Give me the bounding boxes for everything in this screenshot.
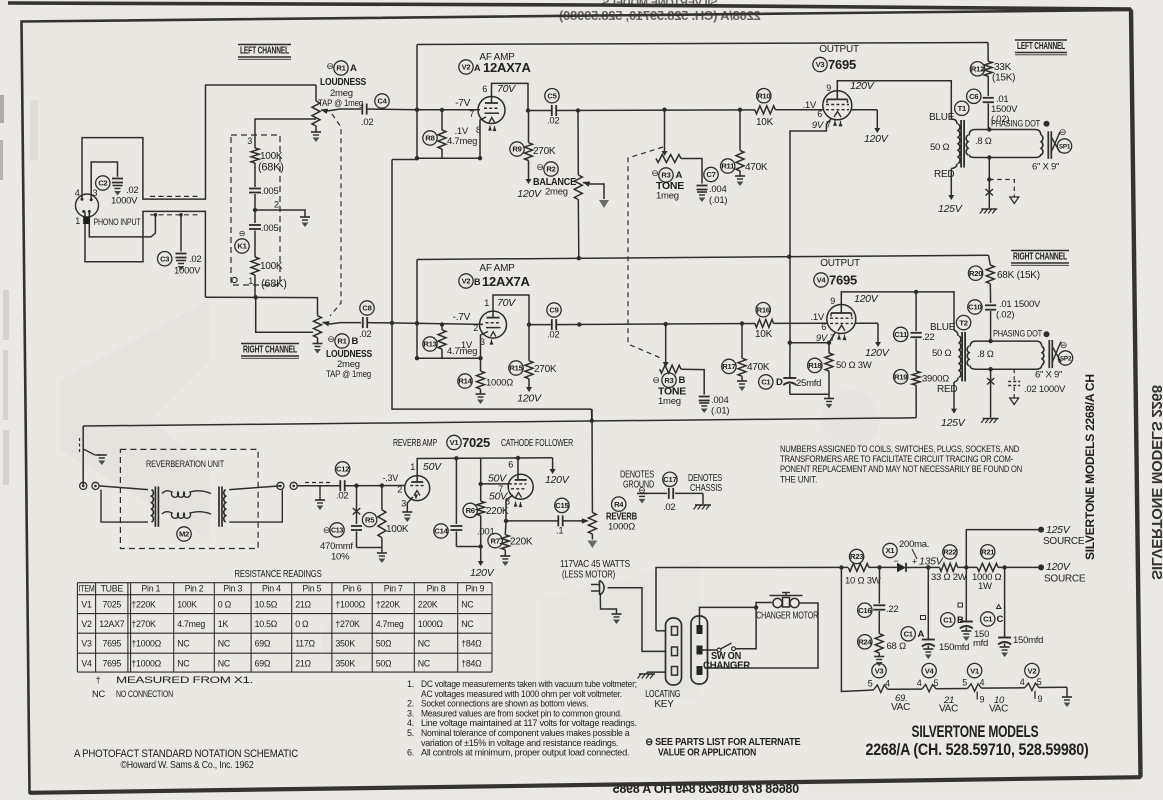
svg-text:R15: R15: [509, 364, 523, 373]
svg-text:5: 5: [868, 679, 873, 689]
wire V3 pin1 to 120V: [852, 109, 878, 111]
svg-text:117VAC 45 WATTS: 117VAC 45 WATTS: [560, 559, 630, 570]
svg-text:(.02): (.02): [996, 310, 1014, 321]
svg-text:Pin 2: Pin 2: [185, 584, 204, 594]
triode V1B: [508, 474, 533, 499]
svg-text:R16: R16: [757, 305, 770, 314]
svg-text:3: 3: [93, 188, 98, 198]
svg-text:R14: R14: [458, 377, 472, 386]
resistor R6 220K: [480, 484, 482, 501]
svg-text:125V: 125V: [1046, 524, 1071, 536]
wire V4 cathode bus: [790, 333, 835, 343]
svg-text:C9: C9: [549, 306, 558, 315]
svg-text:B: B: [352, 336, 359, 347]
wire 125V SOURCE: [964, 565, 968, 569]
svg-text:10K: 10K: [755, 329, 773, 340]
svg-text:7025: 7025: [103, 600, 122, 610]
svg-text:CHANGER: CHANGER: [703, 661, 751, 672]
svg-text:MEASURED FROM X1.: MEASURED FROM X1.: [116, 675, 253, 685]
svg-text:117Ω: 117Ω: [295, 639, 315, 649]
svg-text:120V: 120V: [470, 567, 495, 579]
wire cathode bus y158: [417, 157, 480, 159]
svg-text:VAC: VAC: [939, 704, 958, 715]
svg-text:.02: .02: [547, 116, 559, 127]
resistor R24 68ohm: [875, 634, 883, 653]
svg-text:4: 4: [75, 188, 80, 198]
changer motor symbol: [773, 598, 782, 607]
svg-text:C2: C2: [98, 179, 107, 188]
svg-text:270K: 270K: [534, 364, 557, 375]
filament string end ground: [1066, 687, 1068, 697]
svg-text:0 Ω: 0 Ω: [295, 619, 309, 629]
resistor R22 33ohm 2W: [926, 565, 930, 569]
svg-text:R1: R1: [337, 337, 347, 346]
svg-text:220K: 220K: [510, 537, 533, 548]
wire C4 to V2A grid: [367, 108, 417, 111]
svg-text:VAC: VAC: [989, 704, 1008, 715]
svg-text:4: 4: [885, 678, 890, 688]
resistor R5 100K: [381, 486, 383, 510]
svg-text:150mfd: 150mfd: [1013, 635, 1043, 646]
svg-text:PHASING DOT: PHASING DOT: [991, 119, 1040, 130]
svg-text:Pin 8: Pin 8: [427, 584, 446, 594]
resistor R23 10ohm 3W: [848, 563, 869, 571]
svg-text:69Ω: 69Ω: [255, 639, 271, 649]
svg-text:3900Ω: 3900Ω: [922, 374, 949, 385]
svg-text:C4: C4: [377, 97, 387, 106]
wire 120V arrow V1B plate supply: [552, 458, 554, 470]
svg-text:V1: V1: [450, 438, 460, 447]
capacitor C4: [361, 104, 363, 115]
svg-text:OUTPUT: OUTPUT: [819, 44, 859, 55]
svg-text:R11: R11: [721, 162, 735, 171]
svg-text:R24: R24: [858, 638, 872, 647]
ghost blobs inside frame: [60, 300, 880, 700]
svg-text:120V: 120V: [545, 474, 570, 486]
resistor R13 4.7meg: [441, 325, 443, 330]
svg-text:10 Ω 3W: 10 Ω 3W: [845, 576, 881, 587]
svg-text:1.: 1.: [407, 679, 414, 689]
svg-text:1: 1: [75, 216, 80, 226]
svg-text:⊖: ⊖: [326, 61, 333, 71]
wire V1A plate top: [417, 458, 552, 482]
svg-text:K1: K1: [237, 242, 247, 251]
svg-text:⊖: ⊖: [239, 229, 245, 238]
svg-text:.8 Ω: .8 Ω: [975, 136, 992, 147]
phono input jack M1: [76, 194, 99, 217]
wire V4 pin1 to 120V: [856, 322, 878, 324]
svg-text:variation of ±15% in voltage a: variation of ±15% in voltage and resista…: [421, 738, 618, 748]
wire V1B plate to top rail: [517, 458, 519, 480]
svg-text:SOURCE: SOURCE: [1044, 574, 1086, 585]
svg-text:NC: NC: [218, 658, 231, 668]
svg-text:NC: NC: [177, 639, 190, 649]
svg-text:NC: NC: [418, 639, 431, 649]
svg-text:⊖: ⊖: [652, 375, 659, 385]
svg-text:M2: M2: [179, 530, 189, 539]
svg-text:470K: 470K: [747, 362, 770, 373]
shield dashes upper run: [150, 195, 199, 197]
svg-text:50V: 50V: [423, 461, 442, 473]
capacitor C1B 150mfd: [965, 567, 967, 621]
svg-text:R17: R17: [722, 362, 735, 371]
svg-text:.02: .02: [336, 491, 348, 502]
resistor 100K lower (K1 box): [251, 257, 259, 275]
svg-text:1K: 1K: [218, 619, 229, 629]
rectifier X1: [869, 566, 897, 568]
node V2A plate: [526, 108, 530, 112]
svg-text:A: A: [350, 63, 357, 74]
svg-text:33K: 33K: [994, 62, 1012, 73]
svg-text:TRANSFORMERS ARE TO FACILITATE: TRANSFORMERS ARE TO FACILITATE CIRCUIT T…: [780, 454, 1013, 464]
svg-text:V1: V1: [81, 600, 92, 610]
wire C15 to R4 wiper: [563, 520, 584, 522]
svg-text:C8: C8: [362, 304, 371, 313]
svg-text:21Ω: 21Ω: [295, 600, 311, 610]
svg-text:RESISTANCE READINGS: RESISTANCE READINGS: [235, 569, 323, 580]
resistor R9 270K: [528, 111, 530, 143]
svg-text:350K: 350K: [335, 639, 355, 649]
pentode V3: [823, 91, 852, 120]
svg-text:9: 9: [980, 695, 985, 705]
capacitor C1A 150mfd: [927, 567, 929, 639]
svg-text:C14: C14: [434, 527, 448, 536]
wire shield input left with ground: [82, 426, 84, 486]
svg-text:125V: 125V: [938, 203, 963, 215]
svg-text:VALUE OR APPLICATION: VALUE OR APPLICATION: [658, 748, 756, 759]
reverb input jacks: [80, 482, 87, 489]
capacitor .004 lower tone: [681, 369, 704, 394]
wire V1A cathode ground: [407, 497, 413, 512]
svg-text:5: 5: [1037, 677, 1042, 687]
svg-text:R10: R10: [757, 91, 770, 100]
transformer T1: [958, 124, 960, 164]
svg-text:R18: R18: [808, 361, 821, 370]
svg-text:4.7meg: 4.7meg: [447, 346, 477, 357]
changer connector: [691, 616, 708, 684]
wire V4 plate to T2: [841, 292, 954, 331]
speaker SP2: [1042, 347, 1044, 366]
dashed box K1 network: [231, 135, 280, 285]
svg-text:OUTPUT: OUTPUT: [820, 258, 860, 269]
svg-text:C1: C1: [943, 616, 953, 625]
label RIGHT CHANNEL (right): [1011, 251, 1069, 266]
svg-text:TAP @ 1meg: TAP @ 1meg: [326, 369, 371, 380]
svg-text:5: 5: [934, 678, 939, 688]
svg-text:R21: R21: [981, 548, 995, 557]
wire horizontal y159 to x392: [392, 159, 417, 161]
svg-text:4: 4: [1020, 677, 1025, 687]
svg-text:50 Ω: 50 Ω: [930, 142, 949, 153]
svg-text:B: B: [474, 277, 481, 287]
svg-text:4.: 4.: [407, 718, 414, 728]
capacitor C12: [339, 480, 341, 491]
svg-text:(68K): (68K): [258, 162, 284, 174]
svg-text:120V: 120V: [517, 393, 542, 405]
svg-text:A PHOTOFACT STANDARD NOTATION: A PHOTOFACT STANDARD NOTATION SCHEMATIC: [74, 748, 298, 760]
svg-text:⊖: ⊖: [536, 162, 543, 172]
svg-text:.1V: .1V: [802, 100, 816, 111]
svg-text:120V: 120V: [850, 80, 875, 92]
wire V3 cathode feedback: [790, 119, 831, 256]
wire plug to key slot 2: [608, 588, 667, 652]
svg-text:3.: 3.: [407, 708, 414, 718]
wire motor right to changer slot3: [705, 603, 819, 668]
wire K1 chain to R1B tap: [254, 295, 258, 299]
svg-text:REVERB AMP: REVERB AMP: [393, 438, 437, 449]
svg-text:SILVERTONE MODELS 2268/A CH: SILVERTONE MODELS 2268/A CH: [1083, 374, 1097, 560]
svg-text:R3: R3: [661, 171, 670, 180]
dashed phantom ground SP1: [989, 180, 1014, 198]
svg-text:Pin 1: Pin 1: [141, 584, 160, 594]
svg-text:R12: R12: [971, 65, 984, 74]
page top edge line: [8, 3, 1131, 9]
svg-text:Pin 6: Pin 6: [343, 584, 362, 594]
svg-text:6: 6: [821, 322, 826, 332]
filament string tube circles: [872, 663, 886, 677]
svg-text:.8 Ω: .8 Ω: [977, 349, 994, 360]
svg-text:7695: 7695: [103, 639, 122, 649]
svg-text:AC voltages measured with 1000: AC voltages measured with 1000 ohm per v…: [421, 689, 622, 699]
svg-text:†220K: †220K: [131, 600, 156, 610]
shield dashes lower run: [150, 214, 199, 216]
svg-text:Nominal tolerance of component: Nominal tolerance of component values ma…: [421, 728, 630, 738]
reverb springs: [162, 491, 211, 498]
wire V2A plate loop: [492, 83, 529, 110]
wire V3 plate to T1: [837, 81, 951, 119]
svg-text:125V: 125V: [941, 417, 966, 429]
svg-text:.1: .1: [556, 526, 563, 537]
svg-text:5: 5: [962, 678, 967, 688]
control R3A TONE: [664, 110, 666, 140]
svg-text:R20: R20: [969, 269, 982, 278]
svg-text:RED: RED: [934, 169, 954, 180]
svg-text:V3: V3: [875, 666, 884, 675]
capacitor C15 .1: [506, 520, 558, 522]
svg-text:Pin 9: Pin 9: [465, 584, 484, 594]
svg-text:.005: .005: [261, 186, 279, 197]
svg-text:6" X 9": 6" X 9": [1035, 370, 1062, 381]
svg-text:50 Ω 3W: 50 Ω 3W: [836, 360, 872, 371]
svg-text:AF AMP: AF AMP: [479, 263, 515, 274]
svg-text:7025: 7025: [462, 435, 490, 450]
capacitor C14 .001: [455, 458, 457, 524]
svg-text:V4: V4: [817, 276, 827, 285]
svg-text:ITEM: ITEM: [79, 584, 95, 594]
svg-text:.02 1000V: .02 1000V: [1024, 384, 1066, 395]
svg-text:B: B: [679, 375, 686, 386]
svg-text:V2: V2: [81, 619, 92, 629]
ghost bleed-through text top: [559, 0, 761, 23]
pentode V4: [827, 305, 856, 334]
svg-text:†270K: †270K: [131, 619, 156, 629]
svg-text:68 Ω: 68 Ω: [887, 641, 906, 652]
wire T1 loop to ground: [988, 158, 990, 209]
svg-text:9: 9: [1038, 694, 1043, 704]
shield ground tap: [319, 486, 321, 500]
svg-text:SILVERTONE MODELS 2268: SILVERTONE MODELS 2268: [1148, 385, 1163, 580]
svg-text:CHANGER MOTOR: CHANGER MOTOR: [756, 611, 818, 622]
capacitor C10: [985, 304, 996, 306]
dashed gang line R1A-R1B: [330, 114, 341, 316]
svg-text:69Ω: 69Ω: [255, 658, 271, 668]
svg-text:SP1: SP1: [1059, 143, 1071, 150]
svg-text:V3: V3: [816, 60, 825, 69]
svg-text:50Ω: 50Ω: [376, 658, 392, 668]
triode V2B: [480, 311, 507, 338]
svg-text:NC: NC: [461, 619, 474, 629]
svg-text:(15K): (15K): [992, 73, 1015, 84]
svg-text:470K: 470K: [745, 162, 768, 173]
svg-text:C1: C1: [983, 615, 993, 624]
svg-text:12AX7A: 12AX7A: [483, 60, 531, 75]
tube designator V4 7695: [814, 273, 828, 287]
svg-text:R9: R9: [512, 145, 521, 154]
svg-text:1000V: 1000V: [174, 266, 201, 277]
svg-text:R5: R5: [365, 515, 375, 524]
dashed box REVERBERATION UNIT: [120, 449, 258, 548]
control R2 BALANCE: [576, 108, 580, 112]
svg-text:2: 2: [274, 200, 279, 210]
reverb transducer left M2: [152, 490, 154, 522]
svg-text:†1000Ω: †1000Ω: [131, 658, 161, 668]
svg-text:2.: 2.: [407, 699, 414, 709]
control R1A LOUDNESS: [315, 85, 317, 101]
capacitor C5: [528, 110, 552, 112]
node K1 pin 2 with ground: [253, 208, 257, 212]
wire plug prong to ground: [600, 595, 616, 614]
wire reverb feed step: [591, 409, 593, 421]
svg-text:120V: 120V: [854, 293, 879, 305]
svg-text:C3: C3: [160, 254, 169, 263]
svg-text:C1: C1: [761, 378, 771, 387]
resistor R11 470K: [738, 108, 742, 112]
svg-text:(LESS MOTOR): (LESS MOTOR): [562, 570, 615, 581]
svg-text:3: 3: [401, 499, 406, 509]
svg-text:REVERBERATION UNIT: REVERBERATION UNIT: [146, 459, 224, 470]
wire B+ top rail left channel: [417, 43, 988, 45]
wire pin1 to lower run: [85, 211, 205, 297]
svg-text:6: 6: [482, 84, 487, 94]
svg-text:.01 1500V: .01 1500V: [999, 299, 1041, 310]
K1 box terminal circle: [232, 277, 237, 282]
svg-text:.22: .22: [922, 332, 934, 343]
svg-text:NC: NC: [92, 689, 105, 699]
svg-text:2meg: 2meg: [545, 187, 568, 198]
resistor R10 10K: [755, 106, 776, 114]
wires reverb unit connections: [99, 486, 148, 490]
svg-text:R1: R1: [336, 64, 346, 73]
svg-text:KEY: KEY: [654, 699, 674, 710]
svg-text:R6: R6: [466, 506, 475, 515]
svg-text:7695: 7695: [829, 273, 857, 288]
svg-text:10%: 10%: [331, 552, 350, 563]
svg-text:2268/A (CH. 528.59710, 528.599: 2268/A (CH. 528.59710, 528.59980): [866, 741, 1089, 759]
svg-text:1000V: 1000V: [111, 196, 138, 207]
svg-text:VAC: VAC: [891, 702, 910, 713]
svg-text:RIGHT CHANNEL: RIGHT CHANNEL: [243, 344, 298, 356]
svg-text:†270K: †270K: [335, 619, 360, 629]
speaker SP1: [1041, 135, 1043, 155]
svg-text:4.7meg: 4.7meg: [447, 136, 477, 147]
svg-text:10.5Ω: 10.5Ω: [255, 600, 278, 610]
control R4 REVERB 1000: [591, 409, 593, 512]
resistor R14 1000: [480, 358, 482, 371]
transformer T2: [959, 336, 961, 377]
svg-text:R3: R3: [664, 376, 673, 385]
resistor R15 270K: [527, 322, 531, 326]
wire filament AC line: [841, 568, 869, 692]
control R3B TONE: [665, 324, 667, 354]
capacitor C8: [362, 317, 364, 328]
svg-text:-.3V: -.3V: [382, 473, 398, 483]
capacitor .005 upper: [249, 188, 261, 190]
resistor R16 10K: [755, 319, 774, 327]
svg-text:50 Ω: 50 Ω: [932, 348, 951, 359]
label RIGHT CHANNEL (mid left): [241, 344, 299, 359]
svg-text:.02: .02: [189, 254, 201, 265]
svg-text:R19: R19: [894, 372, 907, 381]
capacitor C11 .22: [915, 292, 917, 331]
wire reverb output to C12: [297, 485, 340, 487]
wire vertical x417 upper: [416, 45, 418, 160]
svg-text:.02: .02: [547, 330, 559, 341]
svg-text:R2: R2: [546, 165, 555, 174]
svg-text:12AX7: 12AX7: [99, 619, 125, 629]
svg-text:−: −: [894, 556, 899, 566]
svg-text:A: A: [474, 63, 481, 73]
resistor R21 1000ohm 1W: [977, 563, 998, 571]
svg-text:mfd: mfd: [973, 638, 988, 649]
svg-text:0 Ω: 0 Ω: [218, 600, 232, 610]
node tone branch upper: [662, 108, 666, 112]
svg-text:.005: .005: [261, 223, 279, 234]
svg-text:100K: 100K: [177, 600, 197, 610]
svg-text:B: B: [957, 615, 964, 626]
svg-text:C7: C7: [706, 170, 715, 179]
svg-text:.02: .02: [126, 185, 138, 196]
ghost text left margin (vertical): [3, 290, 9, 485]
svg-text:(68K): (68K): [261, 278, 287, 290]
svg-text:PHASING DOT: PHASING DOT: [993, 329, 1042, 340]
svg-text:100K: 100K: [260, 261, 283, 272]
svg-text:1meg: 1meg: [658, 396, 681, 407]
svg-text:A: A: [918, 629, 925, 640]
svg-text:1W: 1W: [978, 581, 992, 592]
svg-text:PHONO INPUT: PHONO INPUT: [94, 217, 141, 228]
svg-text:.02: .02: [663, 502, 675, 513]
wire B+ mid rail (box top lower): [417, 255, 989, 259]
svg-text:LEFT CHANNEL: LEFT CHANNEL: [240, 45, 290, 57]
svg-text:220K: 220K: [418, 600, 438, 610]
wire C5 to V3 grid: [556, 109, 755, 112]
wire C14 R6 bus to 120V: [456, 546, 480, 548]
svg-text:DC voltage measurements taken: DC voltage measurements taken with vacuu…: [421, 679, 637, 689]
wire grid feed V1B: [481, 458, 509, 484]
svg-text:⊖ SEE PARTS LIST FOR ALTERNATE: ⊖ SEE PARTS LIST FOR ALTERNATE: [645, 737, 801, 748]
svg-text:LEFT CHANNEL: LEFT CHANNEL: [1017, 40, 1066, 52]
svg-text:21Ω: 21Ω: [295, 658, 311, 668]
svg-text:-7V: -7V: [455, 98, 470, 109]
svg-text:C17: C17: [663, 475, 676, 484]
tube designator V3 7695: [813, 57, 827, 71]
svg-text:V1: V1: [970, 666, 980, 675]
wire R18 C1D ground bus: [790, 393, 829, 395]
wire pin3 to C2: [91, 162, 117, 200]
svg-text:1000Ω: 1000Ω: [486, 378, 513, 389]
wiper wire R1A to C4: [327, 109, 361, 111]
svg-text:C15: C15: [555, 501, 569, 510]
